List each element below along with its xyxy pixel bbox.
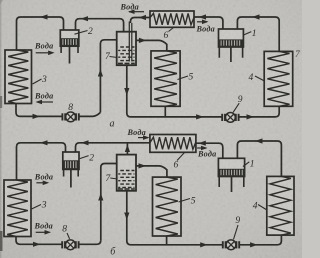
- wire: condenser 3 bottom to expansion valve 8 (diagram b): [16, 237, 62, 245]
- label 1 (diagram a): [243, 29, 257, 39]
- wire: vessel 7 right outlet to coil 5 top (diagram b): [136, 166, 167, 177]
- wire: valve 8 to riser (diagram a): [79, 112, 100, 116]
- evaporator coil 5 (diagram b): [153, 177, 182, 236]
- wire: vessel 7 right outlet to coil 5 top (diagram a): [136, 40, 167, 51]
- label 8 for expansion valve 8 (diagram b): [62, 225, 69, 239]
- wire: compressor 1 discharge to cooler 6 right side (diagram a): [194, 17, 223, 29]
- arrow flow up: [125, 145, 130, 153]
- wire: vessel 7 bottom drain to liquid line and valve 9 (diagram b): [127, 191, 223, 245]
- wire: suction line to compressor 2 merging with cooler 6 outlet (diagram b): [76, 143, 151, 152]
- wire: discharge line compressor 2 to condenser 3 (diagram a): [17, 17, 64, 50]
- wire: valve 8 to riser (diagram b): [79, 240, 101, 244]
- wire: vessel 7 bottom drain to liquid line and valve 9 (diagram a): [127, 65, 222, 117]
- label 7 for vessel (diagram b): [106, 174, 118, 184]
- label 2 (diagram a): [75, 27, 94, 37]
- arrow flow down: [124, 213, 129, 221]
- expansion valve 8 (diagram a): [62, 112, 78, 122]
- arrow flow right: [139, 163, 147, 168]
- arrow flow right: [33, 114, 41, 119]
- arrow flow right: [250, 242, 258, 247]
- wire: liquid feed riser from valve 8 into vessel 7 left side (diagram b): [101, 164, 117, 241]
- water label at cooler 6 right (diagram a): [196, 20, 215, 34]
- scan smudge left edge upper: [0, 96, 2, 108]
- evaporator coil 4 (diagram b): [267, 176, 294, 235]
- wire: liquid feed riser from valve 8 into vessel 7 left side (diagram a): [100, 40, 116, 113]
- label 2 (diagram b): [80, 154, 95, 164]
- water in label at condenser 3 bottom (diagram a): [34, 92, 53, 105]
- water out label at condenser 3 top (diagram b): [34, 173, 53, 186]
- intermediate cooler 6 (diagram a): [150, 11, 194, 27]
- dip tube (double line) into liquid of vessel 7 (diagram a): [128, 22, 130, 62]
- arrow flow up: [98, 193, 103, 201]
- intermediate vessel 7 (diagram a): [117, 32, 136, 65]
- water label at cooler 6 left (diagram b): [127, 128, 150, 140]
- arrow flow left toward compressor 1: [255, 138, 263, 143]
- scan smudge left edge lower: [0, 231, 3, 251]
- water label at cooler 6 right (diagram b): [197, 146, 216, 159]
- wire: coil 5 bottom to liquid line (diagram a): [164, 106, 166, 117]
- label 5 (diagram b): [179, 197, 196, 207]
- scan mark top left corner: [0, 0, 3, 4]
- label 6 (diagram a): [164, 28, 174, 42]
- expansion valve 9 (diagram a): [222, 113, 238, 123]
- arrow flow left into cooler 6: [199, 14, 207, 19]
- expansion valve 8 (diagram b): [62, 240, 78, 250]
- label 6 (diagram b): [174, 153, 185, 171]
- compressor 1 (diagram b): [218, 158, 244, 192]
- evaporator coil 4 (diagram a): [264, 51, 293, 106]
- arrow flow right: [247, 114, 255, 119]
- wire: suction line vessel 7 to compressor 2 (diagram a): [76, 19, 124, 32]
- water label at cooler 6 left (diagram a): [120, 3, 145, 15]
- wire: vapour riser from vessel 7 top (diagram b): [126, 143, 128, 155]
- wire: compressor 1 discharge to cooler 6 right side (diagram b): [196, 143, 223, 158]
- compressor 2 (diagram b): [63, 152, 79, 188]
- wire: evaporator 4 top to compressor 1 suction (diagram b): [237, 141, 281, 176]
- arrow flow right toward valve 9: [200, 242, 208, 247]
- compressor 1 (diagram a): [219, 29, 244, 62]
- water in label at condenser 3 bottom (diagram b): [34, 222, 53, 235]
- water out label at condenser 3 top (diagram a): [34, 42, 55, 56]
- label 3 (diagram b): [32, 201, 47, 211]
- intermediate cooler 6 (diagram b): [150, 135, 196, 153]
- wire: valve 9 to evaporator 4 bottom (diagram b): [239, 235, 281, 245]
- label 1 (diagram b): [243, 160, 255, 170]
- wire: valve 9 to evaporator 4 bottom (diagram a): [239, 106, 279, 117]
- condenser 3 (diagram b): [4, 180, 31, 237]
- expansion valve 9 (diagram b): [223, 240, 239, 250]
- wire: evaporator 4 top to compressor 1 suction (diagram a): [237, 17, 279, 51]
- arrow flow down: [124, 88, 129, 96]
- label 4 (diagram a): [249, 73, 265, 83]
- scan streak along left edge: [0, 0, 1, 258]
- condenser 3 (diagram a): [5, 50, 32, 104]
- label 4 (diagram b): [253, 202, 267, 212]
- arrow flow left toward compressor 2: [81, 140, 89, 145]
- wire: coil 5 bottom to liquid line (diagram b): [166, 236, 168, 245]
- intermediate vessel 7 (diagram b): [117, 155, 136, 191]
- compressor 2 (diagram a): [60, 30, 79, 64]
- label 7 for vessel (diagram a): [105, 52, 118, 62]
- arrow flow left into cooler 6: [198, 141, 206, 146]
- arrow flow left into condenser 3: [40, 14, 48, 19]
- evaporator coil 5 (diagram a): [151, 51, 180, 106]
- arrow flow left toward compressor 2: [81, 16, 89, 21]
- label 9 for expansion valve 9 (diagram a): [233, 95, 243, 112]
- arrow flow left toward vessel: [139, 15, 147, 20]
- wire: condenser 3 bottom to expansion valve 8 (diagram a): [16, 104, 62, 117]
- arrow flow right: [139, 38, 147, 43]
- label 3 (diagram a): [33, 75, 48, 85]
- arrow flow up: [98, 69, 103, 77]
- arrow flow left toward compressor 1: [252, 14, 260, 19]
- wire: discharge line compressor 2 to condenser 3 (diagram b): [17, 143, 66, 180]
- arrow flow left into condenser 3: [40, 140, 48, 145]
- label 5 (diagram a): [178, 73, 194, 83]
- arrow flow right toward valve 9: [196, 114, 204, 119]
- label 8 for expansion valve 8 (diagram a): [68, 103, 73, 113]
- label 9 for expansion valve 9 (diagram b): [234, 216, 241, 239]
- wire: cooler 6 outlet to dip tube into vessel 7 (diagram a): [131, 18, 151, 24]
- arrow flow right: [33, 242, 41, 247]
